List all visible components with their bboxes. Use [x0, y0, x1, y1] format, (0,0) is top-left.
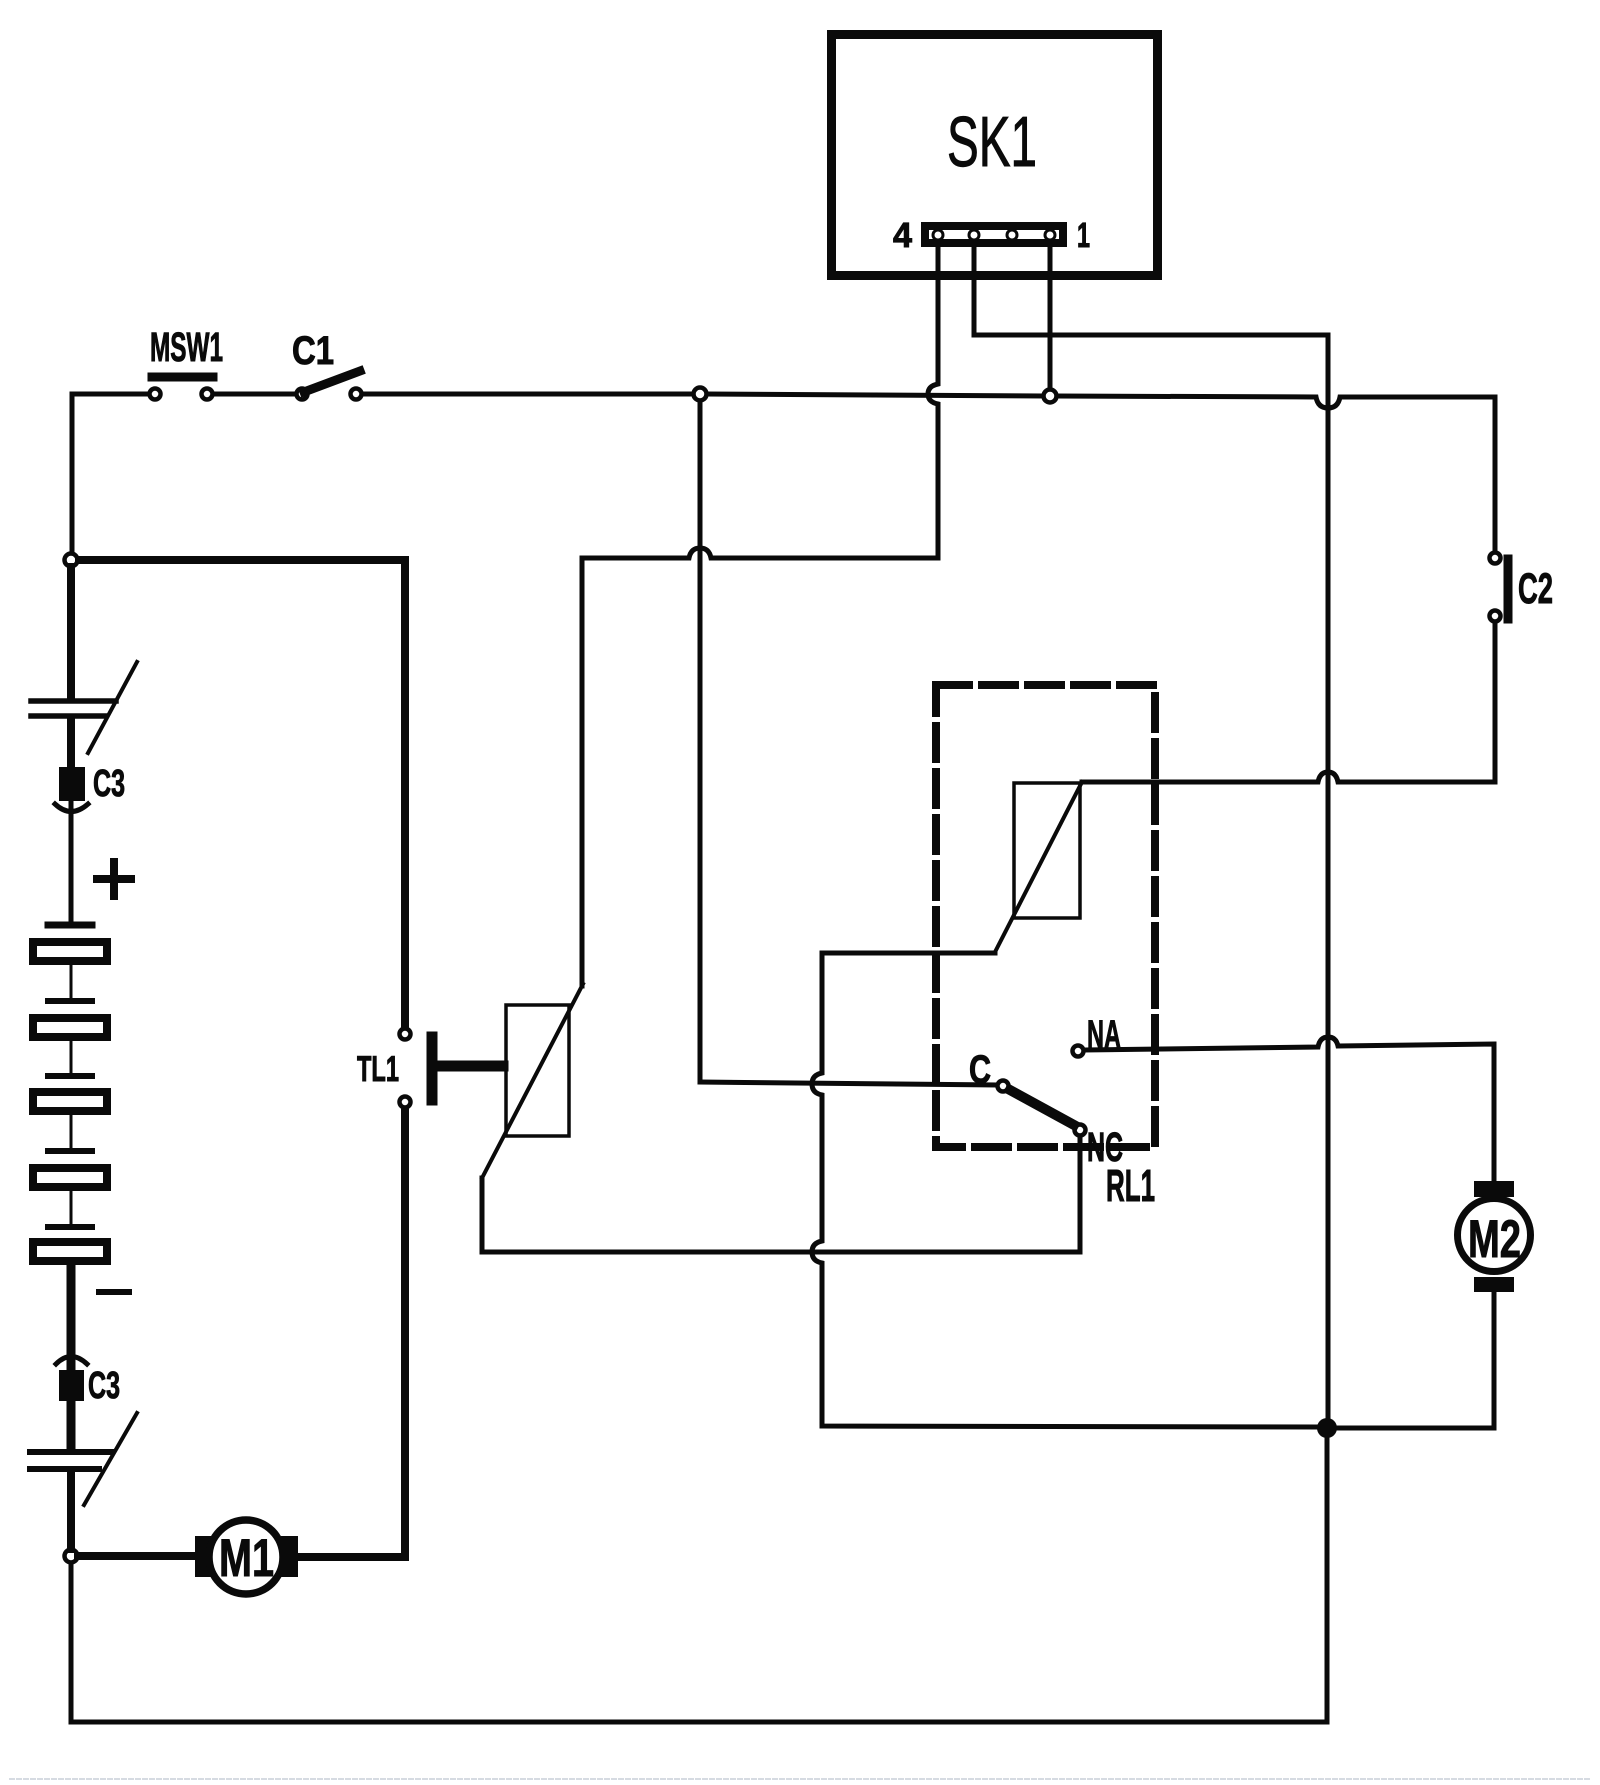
relay contact NC — [1075, 1125, 1086, 1136]
wire — [67, 718, 75, 768]
wire: thick feed from battery node to TL1 riser — [79, 560, 405, 1026]
wire: NC line horizontal — [482, 1250, 1080, 1255]
variable capacitor arrow (lower) — [84, 1413, 137, 1505]
thermal fuse C3 (upper) arc — [55, 804, 88, 812]
wire: SK1 pin 1 down to bus node — [1048, 247, 1053, 389]
svg-text:M1: M1 — [219, 1529, 274, 1588]
switch C1 left terminal — [297, 389, 308, 400]
variable capacitor plates (lower) — [30, 1449, 112, 1455]
wire: common feed to C contact — [700, 1082, 996, 1085]
svg-text:MSW1: MSW1 — [150, 324, 223, 370]
pushbutton TL1 plunger — [427, 1037, 438, 1100]
wire — [67, 1265, 76, 1353]
thermal fuse C3 (lower) arc — [56, 1357, 87, 1365]
svg-text:C3: C3 — [93, 763, 125, 805]
wire: bus left corner down to battery node — [70, 394, 75, 552]
TL1 actuator diagonal — [482, 984, 583, 1178]
relay contact NA — [1073, 1046, 1084, 1057]
battery cell 2 short plate — [48, 998, 92, 1004]
top bus: segment C1 to node x=700 — [362, 392, 693, 397]
SK1 connector strip — [925, 226, 1063, 243]
wire: coil top to C2 bottom, bump over x=1328 — [1082, 623, 1495, 782]
top bus: segment MSW1 to C1 — [214, 392, 296, 397]
variable capacitor arrow — [88, 662, 137, 753]
wire: diagonal bottom down — [480, 1178, 485, 1252]
wire: pin4 horizontal y=558 with hop over x=700 riser — [582, 548, 938, 558]
switch C2 upper terminal — [1490, 553, 1501, 564]
motor M2 top brush — [1474, 1181, 1514, 1197]
wire: bus node down x=700 to relay common — [698, 401, 703, 1082]
wire: node down to bottom rail — [69, 1563, 74, 1722]
motor M1 left lead — [78, 1552, 195, 1560]
motor M1 right brush — [281, 1536, 298, 1577]
battery cell 3 short plate — [48, 1073, 92, 1079]
svg-text:4: 4 — [893, 216, 913, 255]
svg-text:C1: C1 — [292, 329, 334, 373]
variable capacitor plates (upper) — [31, 698, 116, 704]
relay coil diagonal — [995, 782, 1082, 952]
motor M2 bottom brush — [1474, 1277, 1514, 1292]
node: pin 1 joins bus — [1044, 390, 1057, 403]
TL1 actuator box — [506, 1005, 569, 1136]
svg-text:TL1: TL1 — [357, 1048, 399, 1089]
switch C1 lever — [304, 371, 360, 392]
battery cell 1 short plate — [48, 922, 92, 929]
battery cell 3 body — [33, 1092, 107, 1111]
wire — [67, 1356, 76, 1449]
svg-text:C3: C3 — [88, 1365, 120, 1407]
node: bus tap to relay common — [694, 388, 707, 401]
wire: NA to M2 top, bump over x=1328 — [1085, 1037, 1494, 1181]
top bus: right portion with dip under x=1328, corner down to C2 — [1057, 396, 1495, 551]
wire — [69, 801, 74, 921]
link — [70, 1041, 73, 1074]
switch MSW1 contact bar — [152, 373, 213, 382]
svg-text:1: 1 — [1077, 216, 1090, 255]
battery minus sign — [99, 1289, 129, 1295]
wire — [67, 1471, 75, 1549]
relay contact C — [998, 1081, 1009, 1092]
pushbutton TL1 lower terminal — [400, 1097, 411, 1108]
motor M1 body — [209, 1520, 283, 1594]
thermal fuse C3 (lower) body — [59, 1370, 84, 1401]
wire: vertical x=582 down to TL1 actuator diagonal — [580, 558, 585, 986]
motor M2 bottom lead to junction dot — [1335, 1292, 1494, 1428]
wire: SK1 pin 3 down, right, long drop to junction dot — [974, 247, 1328, 1418]
svg-text:M2: M2 — [1468, 1210, 1521, 1269]
switch C2 lower terminal — [1490, 611, 1501, 622]
battery plus sign — [97, 875, 131, 883]
switch C2 bar — [1504, 559, 1513, 619]
relay RL1 dashed enclosure — [936, 685, 1155, 1147]
battery cell 2 body — [33, 1018, 107, 1037]
motor M1 left brush — [195, 1536, 211, 1577]
motor M2 body — [1458, 1199, 1531, 1272]
bottom rail: dot down, left, up to battery node — [71, 1436, 1327, 1722]
connector pin hole 3 — [969, 230, 979, 240]
pushbutton TL1 upper terminal — [400, 1029, 411, 1040]
relay coil box — [1014, 783, 1080, 918]
switch MSW1 right terminal — [202, 389, 213, 400]
battery cell 5 short plate — [48, 1224, 92, 1230]
connector pin hole 2 — [1007, 230, 1017, 240]
wire: coil bottom left, down x=822 (hops over C and NC lines), to junction dot — [812, 953, 1320, 1427]
junction dot — [1317, 1418, 1337, 1438]
svg-text:RL1: RL1 — [1106, 1160, 1155, 1211]
battery cell 5 body — [33, 1242, 107, 1261]
wire: SK1 pin 4 down, hop over top bus — [928, 247, 938, 557]
switch MSW1 left terminal — [150, 389, 161, 400]
wire: NC line up to contact — [1078, 1138, 1083, 1252]
link — [70, 1191, 73, 1224]
svg-text:C2: C2 — [1518, 565, 1553, 613]
thermal fuse C3 (upper) body — [59, 767, 85, 801]
battery feed down to variable capacitor — [67, 567, 75, 699]
battery cell 4 body — [33, 1168, 107, 1187]
scan artifact line at page bottom — [10, 1778, 1590, 1780]
battery cell 4 short plate — [48, 1148, 92, 1154]
SK1 module box — [832, 35, 1158, 276]
relay lever C-NC — [1010, 1090, 1074, 1125]
switch C1 right terminal — [351, 389, 362, 400]
connector pin hole 1 — [1045, 230, 1055, 240]
node: battery positive junction — [65, 554, 78, 567]
svg-text:C: C — [969, 1048, 991, 1092]
node: battery negative / M1 junction — [65, 1550, 78, 1563]
link — [70, 1115, 73, 1148]
link — [70, 965, 73, 999]
top bus: left corner segment — [72, 392, 149, 397]
battery cell 1 body — [33, 942, 107, 961]
motor M1 right lead to TL1 riser — [298, 1110, 405, 1557]
connector pin hole 4 — [933, 230, 943, 240]
top bus: node to pin1 node (pin4 wire hops around) — [707, 394, 1043, 396]
svg-text:SK1: SK1 — [947, 103, 1037, 182]
